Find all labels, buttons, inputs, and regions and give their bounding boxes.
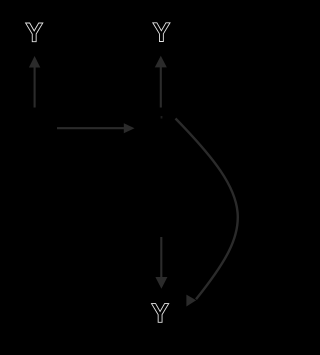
edge arrow down (to Y3): arrowhead <box>155 277 167 289</box>
edge arrow up-left (to Y1): wire stem <box>34 67 36 108</box>
node Y1 (top-left outcome label) <box>26 23 43 42</box>
edge arrow up-right (to Y2): wire stem <box>160 67 162 108</box>
node Y2 (top-right outcome label) <box>153 23 170 42</box>
edge arrow up-left (to Y1): arrowhead <box>29 56 40 68</box>
edge curved arrow (right node to Y3): wire curve <box>176 119 238 300</box>
node junction dot (below right up-arrow, curve origin) <box>161 116 163 119</box>
node Y3 (bottom-right outcome label) <box>151 304 168 323</box>
edge arrow horizontal (left node to right node): wire stem <box>57 127 125 129</box>
edge arrow horizontal: arrowhead <box>124 123 135 133</box>
edge curved arrow (right node to Y3): arrowhead <box>186 295 196 307</box>
edge arrow up-right (to Y2): arrowhead <box>155 56 167 68</box>
edge arrow down (to Y3): wire stem <box>160 237 162 278</box>
